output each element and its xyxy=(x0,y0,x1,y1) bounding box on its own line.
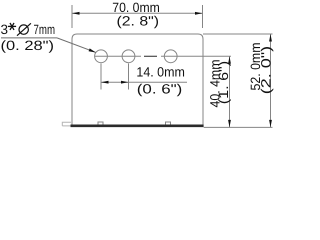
svg-text:(2. 0"): (2. 0") xyxy=(259,46,274,95)
svg-text:(1. 6"): (1. 6") xyxy=(216,61,231,105)
svg-text:7mm: 7mm xyxy=(34,22,56,37)
svg-text:(0. 28"): (0. 28") xyxy=(1,38,55,53)
svg-text:(2. 8"): (2. 8") xyxy=(117,13,160,28)
svg-text:3: 3 xyxy=(1,22,9,37)
svg-text:(0. 6"): (0. 6") xyxy=(137,82,183,97)
svg-text:14. 0mm: 14. 0mm xyxy=(136,64,185,79)
